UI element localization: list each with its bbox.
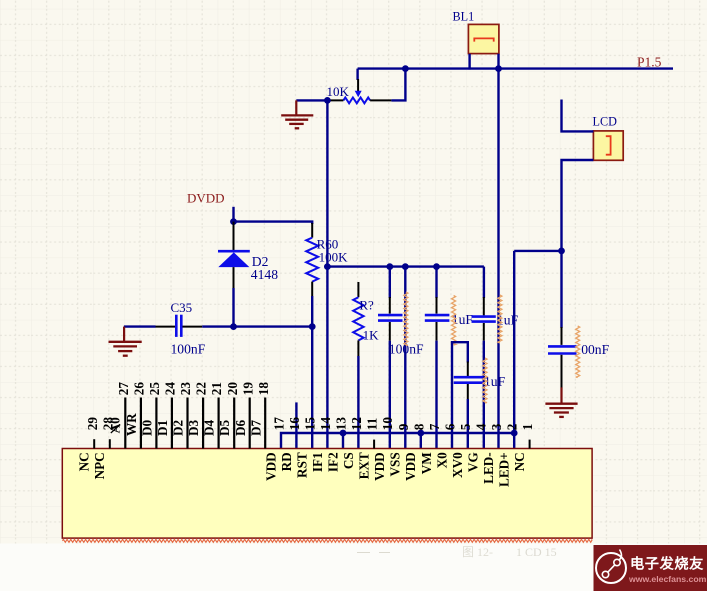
svg-text:8: 8 bbox=[411, 423, 426, 430]
svg-text:EXT: EXT bbox=[357, 452, 372, 479]
svg-text:P1.5: P1.5 bbox=[637, 54, 662, 69]
pin pot wiper stem black bbox=[357, 79, 359, 91]
svg-text:IF1: IF1 bbox=[310, 452, 325, 472]
junction bus cap2 bbox=[433, 263, 440, 270]
wire pot right to top wire bbox=[391, 69, 405, 101]
svg-text:D7: D7 bbox=[248, 419, 263, 436]
svg-text:NPC: NPC bbox=[92, 452, 107, 479]
pin cap5 bottom black bbox=[467, 384, 469, 399]
faint dashes bbox=[357, 552, 390, 554]
pin 29 stub bbox=[93, 439, 95, 448]
capacitor C 1uF a plates bbox=[425, 314, 450, 317]
watermark badge elecfans bbox=[594, 545, 707, 591]
resistor R60 body bbox=[306, 238, 318, 282]
junction DVDD node bbox=[230, 218, 237, 225]
svg-text:14: 14 bbox=[318, 417, 333, 431]
svg-text:VG: VG bbox=[466, 452, 481, 472]
svg-text:电子发烧友: 电子发烧友 bbox=[630, 556, 704, 573]
svg-text:VDD: VDD bbox=[403, 452, 418, 481]
wire bus left down to pin 14 bbox=[326, 267, 328, 449]
svg-text:NC: NC bbox=[512, 452, 527, 471]
svg-text:12: 12 bbox=[349, 417, 364, 431]
pin 25 line bbox=[155, 398, 157, 449]
svg-text:1: 1 bbox=[520, 424, 535, 431]
pin right cap top black bbox=[561, 327, 563, 345]
pin cap5 top black bbox=[467, 362, 469, 377]
svg-text:9: 9 bbox=[396, 423, 411, 430]
svg-text:XV0: XV0 bbox=[450, 452, 465, 478]
wire rail to pin 13 bbox=[342, 433, 344, 449]
error squiggle cap3 label bbox=[498, 295, 502, 343]
svg-text:D0: D0 bbox=[140, 419, 155, 436]
wire pin16 stub bbox=[295, 402, 297, 448]
svg-text:LCD: LCD bbox=[593, 115, 618, 129]
junction rail pin8 bbox=[417, 430, 424, 437]
error squiggle cap5 label bbox=[483, 358, 487, 403]
svg-text:RD: RD bbox=[279, 452, 294, 471]
svg-text:100K: 100K bbox=[319, 250, 349, 265]
pin diode D2 bottom black bbox=[233, 267, 235, 288]
pin diode D2 top black bbox=[233, 222, 235, 251]
pin cap1 bottom black bbox=[389, 322, 391, 341]
junction on top wire at x405 bbox=[402, 65, 409, 72]
wire R60 to pin15 bbox=[311, 296, 313, 449]
pin 23 line bbox=[186, 398, 188, 449]
wire rail to pin 8 bbox=[420, 433, 422, 449]
wire down to pin 2 bbox=[513, 251, 515, 449]
svg-text:5: 5 bbox=[458, 423, 473, 430]
pin pot right black bbox=[370, 99, 391, 101]
error squiggle right cap bbox=[576, 326, 580, 378]
capacitor right 100nF plates bbox=[548, 345, 577, 348]
pin 28 stub bbox=[109, 439, 111, 448]
svg-text:R?: R? bbox=[359, 297, 374, 312]
capacitor C35 plates bbox=[175, 315, 178, 337]
svg-text:100nF: 100nF bbox=[171, 342, 206, 357]
svg-text:IF2: IF2 bbox=[326, 452, 341, 472]
pin cap3 bottom black bbox=[483, 323, 485, 341]
svg-text:24: 24 bbox=[163, 382, 178, 396]
svg-text:CS: CS bbox=[341, 452, 356, 469]
pin 1 stub bbox=[529, 440, 531, 449]
svg-text:23: 23 bbox=[178, 382, 193, 396]
junction pot left node bbox=[324, 97, 331, 104]
wire bus horizontal bbox=[327, 265, 484, 267]
svg-text:VM: VM bbox=[419, 452, 434, 475]
pin cap2 top black bbox=[436, 297, 438, 314]
wire cap2 to pin 7 bbox=[435, 341, 437, 449]
pin cap3 top black bbox=[483, 297, 485, 315]
svg-text:19: 19 bbox=[240, 382, 255, 396]
svg-text:4: 4 bbox=[474, 423, 489, 430]
ground symbol near pot bbox=[295, 100, 297, 115]
wire DVDD to R60 bbox=[234, 222, 313, 224]
wire D2 to C35 node bbox=[232, 288, 234, 327]
pin 27 line bbox=[124, 398, 126, 449]
ground symbol C35 bbox=[123, 327, 125, 341]
pin 21 line bbox=[218, 398, 220, 449]
compile wavy line under IC bbox=[63, 539, 593, 542]
svg-text:VDD: VDD bbox=[263, 452, 278, 481]
svg-text:NC: NC bbox=[77, 452, 92, 471]
svg-text:15: 15 bbox=[303, 417, 318, 431]
svg-text:2: 2 bbox=[505, 423, 520, 430]
junction LCD branch bbox=[558, 248, 565, 255]
pin R60 bottom black bbox=[311, 282, 313, 296]
pin C35 right black bbox=[183, 326, 203, 328]
pin 18 line bbox=[264, 398, 266, 449]
potentiometer R 10K body bbox=[343, 98, 370, 104]
wire R? to pin 12 bbox=[357, 356, 359, 449]
svg-text:29: 29 bbox=[85, 417, 100, 431]
svg-text:25: 25 bbox=[147, 382, 162, 396]
svg-text:RST: RST bbox=[294, 452, 309, 478]
IC U? (main part body) bbox=[62, 449, 592, 539]
wire cap1 to pin 10 bbox=[389, 341, 391, 449]
pin cap2 bottom black bbox=[436, 322, 438, 341]
diode D2 triangle bbox=[218, 252, 249, 267]
wire top net P1.5 horizontal bbox=[358, 67, 673, 69]
wire LCD top stub bbox=[562, 100, 594, 132]
svg-text:D3: D3 bbox=[186, 419, 201, 436]
svg-text:27: 27 bbox=[116, 382, 131, 396]
junction BL1 right pin bbox=[495, 65, 502, 72]
potentiometer wiper arrow bbox=[355, 91, 362, 98]
svg-text:D4: D4 bbox=[202, 419, 217, 436]
svg-text:18: 18 bbox=[256, 382, 271, 396]
svg-text:22: 22 bbox=[194, 382, 209, 396]
pin R2 top black bbox=[357, 282, 359, 297]
pin pot left black bbox=[327, 99, 343, 101]
svg-text:D1: D1 bbox=[155, 420, 170, 436]
svg-text:LED+: LED+ bbox=[497, 452, 512, 487]
junction R60 C35 node bbox=[309, 323, 316, 330]
junction bus cap1 bbox=[386, 263, 393, 270]
svg-text:20: 20 bbox=[225, 382, 240, 396]
svg-text:C35: C35 bbox=[171, 300, 193, 315]
pin right cap bottom black bbox=[561, 355, 563, 388]
wire cap5 to pin 5 bbox=[467, 399, 469, 449]
svg-text:7: 7 bbox=[427, 423, 442, 430]
svg-text:10: 10 bbox=[380, 417, 395, 431]
svg-text:BL1: BL1 bbox=[453, 10, 475, 24]
wire bus to cap2 bbox=[435, 267, 437, 298]
wire lower rail bbox=[281, 433, 514, 449]
wire ground to C35 bbox=[124, 325, 156, 327]
pin 20 line bbox=[233, 398, 235, 449]
svg-text:21: 21 bbox=[209, 382, 224, 395]
svg-text:1 CD 15: 1 CD 15 bbox=[516, 545, 557, 559]
svg-text:16: 16 bbox=[287, 417, 302, 431]
pin 26 line bbox=[140, 398, 142, 449]
ground symbol right bbox=[560, 387, 562, 403]
svg-text:D5: D5 bbox=[217, 419, 232, 436]
svg-text:图 12-: 图 12- bbox=[462, 545, 493, 559]
junction bus left bbox=[324, 263, 331, 270]
wire LCD bottom to junction bbox=[562, 160, 594, 328]
junction pin2 on rail bbox=[511, 430, 518, 437]
capacitor C 1uF c plates bbox=[454, 376, 484, 379]
pin 19 line bbox=[249, 398, 251, 449]
wire ground to pot bbox=[296, 99, 327, 101]
svg-text:DVDD: DVDD bbox=[187, 191, 225, 206]
wire DVDD stub bbox=[232, 207, 234, 222]
svg-text:3: 3 bbox=[489, 423, 504, 430]
junction rail pin13 bbox=[340, 430, 347, 437]
junction D2 bottom bbox=[230, 323, 237, 330]
pin R2 bottom black bbox=[357, 340, 359, 356]
wire bus to pin 9 bbox=[404, 267, 406, 449]
pin 11 stub bbox=[373, 440, 375, 449]
svg-text:11: 11 bbox=[365, 418, 380, 430]
svg-text:VSS: VSS bbox=[388, 452, 403, 476]
diode D2 cathode bar bbox=[218, 250, 250, 253]
junction bus pin9 bbox=[402, 263, 409, 270]
wire pot wiper corner bbox=[356, 69, 358, 80]
resistor R? body bbox=[353, 297, 363, 340]
svg-text:13: 13 bbox=[334, 417, 349, 431]
component BL1 (sheet symbol box) bbox=[468, 24, 499, 53]
svg-text:www.elecfans.com: www.elecfans.com bbox=[628, 574, 707, 584]
capacitor C 100nF plates bbox=[378, 314, 403, 317]
pin 24 line bbox=[171, 398, 173, 449]
svg-text:D6: D6 bbox=[233, 419, 248, 436]
wire C35 to RST node bbox=[202, 325, 312, 327]
error squiggle pin9 wire bbox=[404, 292, 408, 346]
svg-text:D2: D2 bbox=[171, 419, 186, 436]
wire cap3 to pin 4 bbox=[483, 341, 485, 449]
svg-text:LED-: LED- bbox=[481, 452, 496, 484]
wire BL1 left pin drop bbox=[468, 54, 470, 70]
pin R60 top black bbox=[311, 223, 313, 238]
error squiggle cap2 label bbox=[452, 296, 456, 346]
svg-text:4148: 4148 bbox=[251, 267, 278, 282]
bottom band bbox=[0, 544, 707, 591]
svg-text:X0: X0 bbox=[434, 452, 449, 469]
svg-text:6: 6 bbox=[443, 423, 458, 430]
wire X0 bracket bbox=[452, 342, 468, 448]
wire bus to cap1 bbox=[389, 267, 391, 298]
wire pot node down to bus bbox=[326, 100, 328, 266]
wire branch left to pin2 drop bbox=[514, 250, 561, 252]
wire bus right down bbox=[483, 267, 485, 298]
svg-text:VDD: VDD bbox=[372, 452, 387, 481]
svg-text:26: 26 bbox=[132, 382, 147, 396]
capacitor C 1uF b plates bbox=[472, 315, 496, 318]
component LCD (sheet symbol box) bbox=[593, 131, 623, 160]
svg-text:17: 17 bbox=[271, 417, 286, 431]
pin cap1 top black bbox=[389, 297, 391, 314]
svg-text:00nF: 00nF bbox=[581, 342, 609, 357]
pin 22 line bbox=[202, 398, 204, 449]
svg-text:1K: 1K bbox=[363, 327, 380, 342]
svg-text:WR: WR bbox=[124, 413, 139, 436]
pin C35 left black bbox=[156, 326, 176, 328]
wire BL1 right pin drop to pin 3 bbox=[497, 54, 499, 449]
